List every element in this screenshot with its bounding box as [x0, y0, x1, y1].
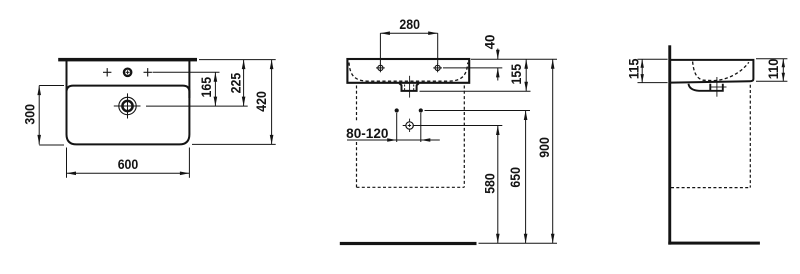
svg-text:280: 280	[399, 17, 420, 32]
front view: supply level extension	[425, 110, 531, 112]
side view: bowl hidden contour (dashed)	[693, 62, 749, 81]
side view: floor line (thick)	[668, 242, 760, 245]
front view: bowl hidden contour (dashed)	[349, 63, 468, 82]
front view: waste level extension	[415, 125, 503, 127]
front view: trap centreline	[409, 76, 411, 98]
svg-text:600: 600	[118, 157, 139, 172]
front view: trap hidden edges (dashed)	[404, 85, 406, 91]
dim 580: arrow up	[496, 126, 500, 136]
front view: fixing hole level extension	[443, 67, 502, 69]
top view: basin outer right edge	[188, 61, 190, 98]
dim 225: extension line (drain level)	[146, 105, 248, 107]
top view: centre tap hole	[124, 69, 131, 76]
dim 600: arrow right	[180, 172, 190, 176]
dim 110: extension line bottom	[756, 80, 787, 82]
top view: drain inner ring	[122, 101, 132, 111]
dim 110: arrow down	[782, 73, 785, 82]
side view: trap centreline horizontal	[711, 86, 727, 88]
dim 300: dimension line	[38, 86, 40, 145]
dim 600: dimension line	[67, 172, 190, 174]
side view: installation zone bottom (dashed)	[671, 187, 750, 189]
dim 420: extension line top	[199, 59, 276, 61]
front view: installation zone left (dashed)	[356, 86, 358, 121]
front view: supply right leader	[420, 113, 422, 142]
dim 225: arrow down	[242, 97, 246, 107]
dim 280: extension line right	[437, 33, 439, 64]
dim 115: extension line bottom	[638, 82, 668, 84]
side view: basin profile	[671, 60, 753, 83]
dim 165: dimension line	[214, 72, 216, 106]
dim 300: arrow down	[37, 135, 41, 145]
top view: left alt. tap hole cross	[103, 71, 111, 73]
dim 280: arrow left	[380, 31, 390, 35]
dim 155: arrow down	[524, 82, 528, 92]
dim 165: arrow up	[214, 72, 218, 82]
side view: trap inner edge	[709, 84, 711, 91]
dim 40: arrow down	[496, 50, 500, 60]
dim 420: arrow up	[270, 60, 274, 70]
svg-text:300: 300	[23, 104, 38, 125]
dim 80-120: dimension line	[347, 139, 440, 141]
svg-text:165: 165	[199, 76, 214, 97]
side view: trap outline	[689, 84, 723, 91]
dim 580: dimension line	[497, 126, 499, 244]
front view: supply left leader	[396, 113, 398, 142]
top view: drain outer circle	[119, 97, 136, 114]
front view: drain trap box	[399, 83, 419, 91]
svg-text:900: 900	[537, 137, 552, 158]
dim 900: arrow up	[551, 59, 555, 69]
dim 40: dimension line lower	[497, 68, 499, 81]
front view: right fixing hole	[435, 65, 440, 70]
dim 155: dimension line	[525, 59, 527, 91]
dim 600: extension line left	[66, 148, 68, 178]
dim 80-120: arrow onto right leader	[421, 138, 431, 142]
dim 280: extension line left	[379, 33, 381, 64]
side view: installation zone right (dashed)	[749, 85, 751, 188]
svg-text:650: 650	[508, 167, 523, 188]
dim 280: arrow right	[428, 31, 438, 35]
dim 40: dimension line upper	[497, 49, 499, 60]
dim 300: arrow up	[37, 86, 41, 96]
dim 300: extension line bottom	[39, 144, 64, 146]
dim 110: extension line top	[756, 58, 787, 60]
dim 115: dimension line	[641, 59, 643, 82]
front view: installation zone right (dashed)	[463, 86, 465, 188]
svg-text:110: 110	[766, 59, 781, 80]
dim 165: extension line top (tap row)	[153, 71, 220, 73]
front view: left water supply point	[395, 108, 399, 112]
front view: floor (thick line)	[340, 242, 477, 245]
dim 115: extension line top	[638, 58, 668, 60]
dim 115: arrow up	[641, 59, 644, 68]
dim 225: arrow up	[242, 60, 246, 70]
front view: left fixing hole	[378, 65, 383, 70]
svg-text:225: 225	[228, 72, 243, 93]
dim 300: extension line top	[39, 85, 64, 87]
dim 600: extension line right	[188, 148, 190, 178]
front view: installation zone bottom (dashed)	[357, 186, 465, 188]
front view: rim level extension	[471, 58, 557, 60]
svg-text:420: 420	[254, 91, 269, 112]
dim 420: extension line bottom	[192, 143, 276, 145]
dim 900: arrow down	[551, 234, 555, 244]
front view: right water supply point	[419, 108, 423, 112]
dim 420: dimension line	[271, 60, 273, 145]
top view: wall edge (thick back line)	[58, 58, 197, 62]
dim 580: arrow down	[496, 234, 500, 244]
dim 110: dimension line	[782, 59, 784, 81]
side view: trap centreline vertical	[716, 77, 718, 97]
front view: waste outlet position	[406, 122, 413, 129]
top view: drain centreline vertical	[127, 93, 129, 118]
dim 650: dimension line	[525, 111, 527, 244]
svg-text:580: 580	[482, 173, 497, 194]
side view: wall line (thick)	[668, 45, 671, 244]
dim 420: arrow down	[270, 135, 274, 145]
top view: drain centreline horizontal	[114, 105, 141, 107]
dim 110: arrow up	[782, 59, 785, 67]
dim 115: arrow down	[641, 74, 644, 83]
svg-text:80-120: 80-120	[346, 126, 388, 141]
front view: floor level extension	[479, 242, 558, 244]
dim 40: arrow up	[496, 68, 500, 78]
dim 900: dimension line	[552, 59, 554, 243]
top view: right alt. tap hole cross	[144, 71, 152, 73]
front view: basin outline	[347, 59, 469, 83]
dim 165: arrow down	[214, 97, 218, 107]
dim 600: arrow left	[67, 172, 77, 176]
dim 650: arrow up	[524, 111, 528, 121]
dim 225: dimension line	[243, 60, 245, 107]
svg-text:155: 155	[509, 63, 524, 84]
top view: basin outer left edge	[66, 61, 68, 98]
svg-text:40: 40	[482, 35, 497, 50]
dim 155: arrow up	[524, 59, 528, 69]
top view: basin bowl outline (rounded)	[67, 86, 190, 145]
dim 80-120: arrow onto left leader	[387, 138, 397, 142]
dim 650: arrow down	[524, 234, 528, 244]
front view: trap bottom level extension	[420, 90, 531, 92]
svg-text:115: 115	[627, 58, 642, 79]
dim 280: dimension line	[380, 32, 437, 34]
